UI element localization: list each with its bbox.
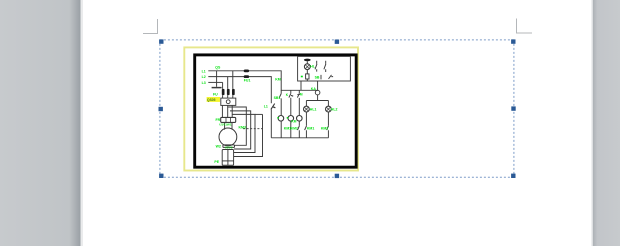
svg-text:L2: L2	[202, 75, 206, 79]
svg-text:KM: KM	[291, 120, 296, 124]
svg-text:QS05: QS05	[207, 98, 216, 102]
svg-text:U2V2: U2V2	[225, 146, 233, 150]
svg-text:SB1: SB1	[274, 96, 281, 100]
svg-text:L3: L3	[202, 81, 206, 85]
svg-text:HL1: HL1	[310, 108, 317, 112]
svg-text:KM2: KM2	[291, 127, 298, 131]
svg-text:M: M	[300, 92, 303, 96]
svg-text:KM: KM	[275, 77, 281, 81]
svg-text:L1: L1	[202, 69, 206, 73]
svg-text:W2: W2	[216, 144, 221, 148]
svg-text:QS: QS	[215, 66, 221, 70]
svg-text:KM2: KM2	[321, 127, 328, 131]
svg-text:KM3: KM3	[239, 125, 246, 129]
svg-text:FR: FR	[216, 118, 221, 122]
svg-text:L1: L1	[264, 104, 268, 108]
svg-text:FU1: FU1	[244, 79, 251, 83]
svg-text:KA: KA	[311, 87, 317, 91]
svg-text:SB: SB	[315, 76, 320, 80]
svg-text:U1V1W1: U1V1W1	[219, 123, 232, 127]
svg-text:HL2: HL2	[331, 108, 338, 112]
svg-text:KM1: KM1	[307, 127, 314, 131]
svg-text:PE: PE	[214, 160, 219, 164]
svg-text:FU: FU	[213, 92, 218, 96]
